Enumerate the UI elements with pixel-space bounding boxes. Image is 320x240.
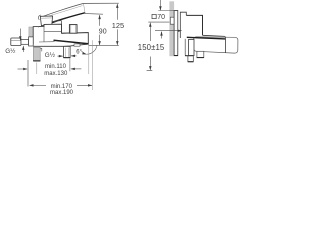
node: outlet centerline — [36, 63, 38, 75]
wire: body inner vertical — [43, 26, 45, 42]
extent line left — [27, 60, 29, 87]
svg-text:min.110: min.110 — [45, 64, 67, 70]
extent line right dim2 — [91, 40, 93, 90]
wire: cartridge right edge — [61, 21, 63, 34]
lever side profile — [186, 15, 202, 35]
body pill outline — [193, 37, 237, 53]
hose outlet bottom edge — [63, 57, 70, 59]
svg-text:90: 90 — [99, 28, 107, 35]
shower hose outlet tube — [64, 46, 71, 57]
dimension 125 line upper — [116, 4, 118, 20]
arrow: G1/2 bottom right-pointing — [58, 55, 63, 57]
svg-text:max.130: max.130 — [44, 71, 68, 77]
bracket vertical at wall — [184, 39, 186, 56]
wire: plate bottom extension with arrow — [155, 30, 182, 32]
dimension 150 lower arrow — [149, 57, 151, 71]
handle tip face — [84, 4, 86, 13]
handle left hook — [38, 15, 40, 20]
svg-text:G½: G½ — [5, 47, 16, 55]
wire: body top right section — [62, 32, 89, 35]
union connector — [21, 39, 29, 44]
tick at 150 end — [147, 70, 153, 72]
hose nut bottom edge — [188, 61, 194, 63]
arrow: G1/2 left leader up — [22, 46, 24, 52]
spout underside slant (thick) — [54, 40, 89, 44]
arrow: sq70 bottom — [161, 32, 163, 39]
bracket bottom dark edge — [185, 55, 193, 57]
dimension 90 line upper — [99, 15, 101, 26]
6 deg arc — [87, 45, 97, 54]
arrow: sq70 top — [159, 0, 161, 10]
spout outlet bottom edge — [33, 60, 40, 62]
svg-text:125: 125 — [112, 21, 124, 30]
spout outlet column (gray) — [33, 47, 40, 61]
wire: end cap seam — [224, 37, 226, 53]
hose nut lower — [188, 56, 193, 62]
svg-text:G½: G½ — [45, 51, 56, 59]
label sq70: square glyph — [152, 14, 156, 18]
body main block — [33, 24, 88, 46]
union nut — [29, 37, 34, 46]
handle underside (thick tapered) — [44, 13, 85, 27]
diverter knob — [69, 25, 77, 34]
dimension min170 left arrow — [30, 84, 47, 86]
spout aerator notch — [74, 44, 80, 46]
wire: body inner horizontal — [39, 41, 55, 43]
wire: extension line for 90 — [85, 13, 103, 16]
spout outlet below pill — [197, 51, 204, 57]
body back block — [180, 12, 186, 38]
wire: cartridge bottom line — [44, 30, 62, 32]
wire: handle inner top line — [46, 6, 83, 17]
wire: cartridge top edge — [52, 20, 62, 23]
wall flange (left union) — [11, 38, 21, 46]
body left section — [33, 27, 39, 46]
wire: centerline extension — [148, 21, 169, 23]
svg-text:150±15: 150±15 — [138, 43, 165, 52]
escutcheon plate edge-on — [174, 11, 178, 56]
svg-text:max.190: max.190 — [50, 90, 74, 96]
knob inner lines — [71, 25, 76, 33]
tube thread inner lines — [65, 48, 68, 57]
wire: tube right extent line down — [69, 59, 71, 72]
dimension min110 left arrow — [18, 68, 28, 70]
dimension min110 right arrow — [71, 68, 82, 70]
wire: body edge extension down — [88, 45, 90, 75]
arrow: flange top pointer — [19, 29, 21, 41]
handle base block — [40, 16, 52, 26]
svg-text:6°: 6° — [76, 50, 82, 56]
wire: centerline at right of body — [89, 44, 119, 46]
wire: handle top edge + extension line for 125 — [41, 3, 119, 17]
plate bottom edge — [174, 55, 178, 57]
arrow: tube left-pointing — [71, 55, 77, 57]
wire: plate top extension — [158, 10, 178, 12]
spout outlet bottom edge — [197, 57, 204, 59]
svg-text:70: 70 — [157, 14, 165, 21]
dimension 150 upper arrow — [149, 23, 151, 41]
dimension min170 right arrow — [77, 84, 92, 86]
hose outlet drop tube — [189, 39, 194, 55]
body step corner at column — [36, 48, 42, 51]
back column (gray) — [29, 27, 33, 37]
dimension 125 line lower — [116, 29, 118, 45]
arrow: 6 deg leader — [82, 51, 87, 54]
wire: body top edge — [203, 35, 226, 36]
dimension 90 line lower — [99, 35, 101, 46]
union socket behind plate — [170, 17, 176, 24]
wire: handle base inner line — [41, 17, 52, 19]
flange inner line — [11, 40, 21, 42]
wall section (gray) — [169, 1, 174, 56]
body bottom slant (thick) — [187, 37, 226, 39]
